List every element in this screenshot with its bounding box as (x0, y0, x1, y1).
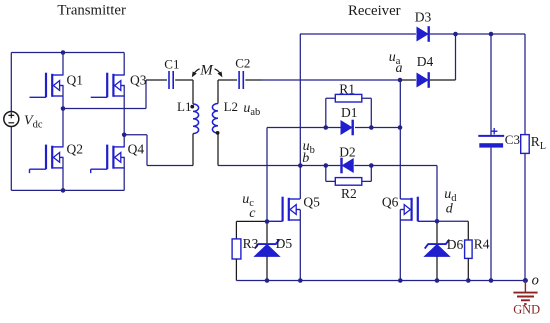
svg-text:D6: D6 (447, 237, 464, 252)
svg-text:D5: D5 (276, 236, 293, 251)
svg-text:R3: R3 (243, 236, 259, 251)
svg-text:Receiver: Receiver (348, 3, 401, 19)
svg-text:R2: R2 (341, 186, 357, 201)
svg-text:Q4: Q4 (128, 141, 145, 156)
svg-text:L1: L1 (177, 99, 191, 114)
svg-text:R1: R1 (339, 82, 355, 97)
svg-text:Q1: Q1 (67, 72, 84, 87)
svg-text:D4: D4 (417, 54, 434, 69)
svg-text:M: M (199, 63, 214, 79)
svg-text:d: d (446, 201, 454, 216)
svg-text:Vdc: Vdc (24, 113, 43, 130)
svg-text:uab: uab (243, 101, 260, 118)
svg-text:Q2: Q2 (67, 141, 84, 156)
svg-text:D2: D2 (339, 145, 356, 160)
svg-text:R4: R4 (474, 236, 490, 251)
svg-text:c: c (249, 206, 256, 221)
svg-text:Transmitter: Transmitter (57, 3, 126, 19)
svg-text:GND: GND (513, 303, 540, 317)
svg-text:Q6: Q6 (382, 194, 399, 209)
svg-text:D1: D1 (341, 105, 358, 120)
svg-text:a: a (396, 61, 403, 76)
svg-text:Q5: Q5 (303, 194, 320, 209)
svg-text:C2: C2 (235, 56, 250, 71)
svg-text:L2: L2 (224, 99, 238, 114)
svg-text:Q3: Q3 (130, 72, 147, 87)
svg-text:C1: C1 (164, 56, 179, 71)
svg-text:o: o (532, 272, 539, 288)
svg-text:RL: RL (531, 134, 546, 152)
svg-text:D3: D3 (415, 9, 432, 24)
svg-text:b: b (302, 151, 309, 166)
svg-text:C3: C3 (505, 132, 520, 147)
